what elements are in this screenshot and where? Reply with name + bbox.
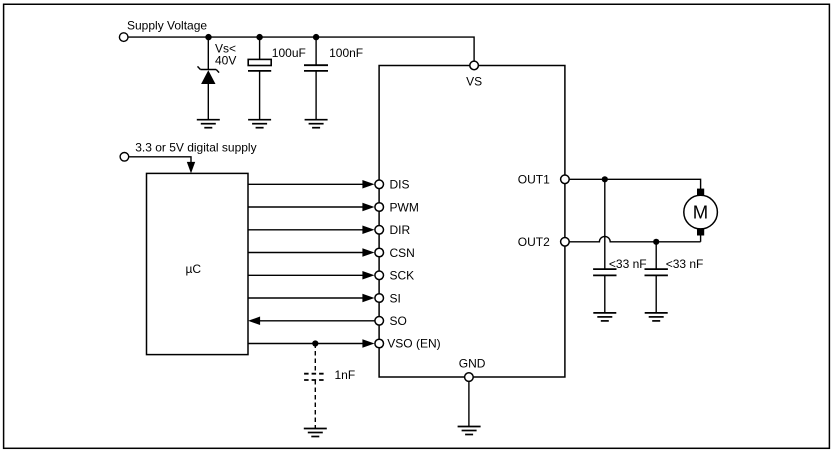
wire: OUT2 to motor with hop over C4 lead [569, 236, 700, 241]
value label Vs< 40V [215, 42, 236, 68]
node: junction supply/zener [205, 34, 211, 40]
svg-text:<33 nF: <33 nF [666, 257, 704, 271]
wire: supply rail from terminal to VS pin [128, 37, 474, 61]
pin OUT1 [518, 172, 569, 186]
ground (zener) [197, 120, 220, 128]
pin DIR [375, 223, 411, 237]
ground (1nF) [304, 429, 327, 437]
terminal: Supply Voltage input [119, 19, 207, 42]
capacitor C1 100uF (electrolytic) [248, 59, 271, 71]
svg-text:CSN: CSN [390, 246, 415, 260]
ground (100uF) [248, 120, 271, 128]
pin SO [375, 314, 407, 328]
node: junction supply/100nF [313, 34, 319, 40]
wire: DIR signal [248, 229, 364, 231]
svg-text:OUT2: OUT2 [518, 235, 550, 249]
wire: OUT1 to motor [569, 179, 700, 189]
svg-text:µC: µC [186, 262, 202, 276]
wire: CSN signal [248, 252, 364, 254]
svg-text:DIS: DIS [390, 178, 410, 192]
pin SI [375, 291, 401, 305]
svg-text:1nF: 1nF [335, 368, 356, 382]
ground (C4) [593, 313, 616, 321]
svg-text:VSO (EN): VSO (EN) [387, 337, 440, 351]
wire: C5 top lead [655, 242, 657, 269]
pin VSO (EN) [375, 337, 441, 351]
wire: 100nF bottom lead [315, 71, 317, 120]
wire: C5 bottom lead [655, 275, 657, 313]
node: junction OUT1/C4 [602, 176, 608, 182]
wire: SCK signal [248, 274, 364, 276]
wire: DIS signal [248, 183, 364, 185]
op-amp U1: motor driver IC body [379, 66, 565, 378]
wire: VSO (EN) signal [248, 343, 364, 345]
svg-text:DIR: DIR [390, 223, 411, 237]
motor M1 [684, 189, 718, 242]
svg-text:SO: SO [390, 314, 407, 328]
pin PWM [375, 200, 419, 214]
svg-text:GND: GND [459, 357, 486, 371]
node: junction OUT2/C5 [653, 239, 659, 245]
pin GND [459, 357, 486, 382]
ground (100nF) [305, 120, 328, 128]
wire: zener bottom lead [207, 84, 209, 120]
svg-text:3.3 or 5V digital supply: 3.3 or 5V digital supply [135, 140, 256, 154]
ground (C5) [645, 313, 668, 321]
svg-text:M: M [693, 202, 708, 223]
wire: SO signal (to uC) [259, 320, 375, 322]
svg-text:PWM: PWM [390, 200, 419, 214]
node: junction supply/100uF [256, 34, 262, 40]
capacitor C4 <33 nF [593, 269, 616, 275]
svg-text:OUT1: OUT1 [518, 172, 550, 186]
svg-text:<33 nF: <33 nF [609, 257, 647, 271]
wire: 100nF top lead [315, 37, 317, 65]
ground (GND pin) [458, 427, 481, 435]
wire: 100uF top lead [259, 37, 261, 59]
terminal: 3.3 or 5V digital supply [120, 140, 257, 161]
wire: C4 top lead [604, 179, 606, 269]
svg-text:100nF: 100nF [329, 46, 363, 60]
node: junction VSO/1nF [312, 340, 318, 346]
capacitor C5 <33 nF [645, 269, 668, 275]
zener diode D1 (Vs< 40V clamp) [198, 66, 220, 84]
svg-text:100uF: 100uF [272, 46, 306, 60]
wire: SI signal [248, 297, 364, 299]
wire: digital supply into uC [129, 157, 195, 174]
svg-text:40V: 40V [215, 53, 236, 67]
pin VS [466, 61, 482, 88]
pin DIS [375, 178, 410, 192]
wire: 100uF bottom lead [259, 71, 261, 120]
pin SCK [375, 269, 414, 283]
svg-text:SI: SI [390, 291, 401, 305]
wire: PWM signal [248, 206, 364, 208]
pin OUT2 [518, 235, 569, 249]
wire: GND lead [468, 381, 470, 426]
svg-text:VS: VS [466, 75, 482, 89]
capacitor C2 100nF [304, 65, 328, 71]
wire: C4 bottom lead [604, 275, 606, 313]
svg-text:SCK: SCK [390, 269, 415, 283]
transistor Q1: microcontroller uC box [147, 173, 249, 354]
pin CSN [375, 246, 415, 260]
wire: zener top lead [207, 37, 209, 69]
svg-text:Supply Voltage: Supply Voltage [127, 19, 207, 33]
capacitor C3 1nF (optional, dashed) [304, 344, 326, 429]
